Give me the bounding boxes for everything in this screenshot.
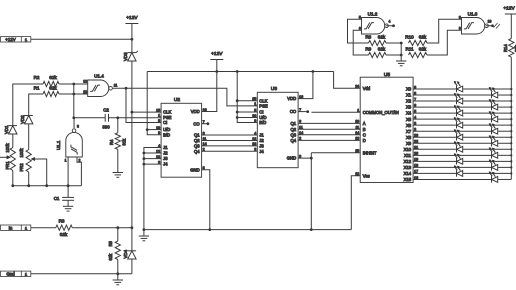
LED HL14 on X13	[489, 160, 498, 171]
svg-text:11: 11	[355, 126, 359, 130]
wire input rail A	[72, 226, 132, 229]
svg-text:1: 1	[357, 109, 359, 113]
svg-text:J1: J1	[259, 133, 264, 138]
wire U2 GND to ground rail	[202, 170, 212, 231]
LED HL6 on X5	[489, 111, 498, 122]
wires U3 Q outputs to U5 A B C D	[298, 123, 360, 140]
svg-text:J4: J4	[163, 162, 168, 167]
svg-text:J3: J3	[259, 144, 264, 149]
svg-text:100k: 100k	[5, 143, 10, 153]
svg-text:Q3: Q3	[194, 144, 200, 149]
diode VD2	[20, 115, 33, 124]
svg-text:+12V: +12V	[126, 15, 138, 21]
LED HL13 on X12	[454, 154, 463, 165]
svg-text:CO: CO	[290, 109, 297, 114]
resistor R8 62k	[365, 35, 386, 46]
svg-text:390: 390	[102, 124, 110, 129]
svg-text:U3: U3	[271, 86, 277, 92]
svg-text:R9: R9	[365, 46, 371, 51]
wire U1.1 input 1 to rail	[67, 157, 69, 186]
resistor R1 62k	[34, 86, 59, 97]
svg-text:24: 24	[355, 85, 359, 89]
svg-text:Q2: Q2	[194, 138, 200, 143]
wire X15 row	[413, 178, 511, 180]
wire X14 row	[413, 172, 511, 174]
svg-text:8: 8	[459, 15, 461, 19]
svg-text:C1: C1	[54, 196, 60, 201]
svg-text:5: 5	[359, 15, 361, 19]
wire X4 row	[413, 112, 511, 114]
svg-text:X5: X5	[406, 117, 412, 122]
svg-text:U1.1: U1.1	[56, 140, 61, 150]
wire U1.1 input 2 jog to rail end	[77, 157, 81, 186]
wire R8 R9 to common node	[386, 42, 403, 61]
svg-text:10: 10	[156, 126, 160, 130]
svg-text:15: 15	[156, 108, 160, 112]
wire rail to U5 Vdd	[334, 72, 361, 89]
wire R1 row	[29, 93, 88, 116]
resistor R2 62k	[34, 75, 59, 86]
wire X6 row	[413, 124, 511, 126]
potentiometer PR1	[5, 134, 16, 186]
svg-text:3: 3	[77, 125, 79, 129]
svg-text:R8: R8	[365, 35, 371, 40]
svg-text:Gnd: Gnd	[6, 272, 15, 277]
LED HL4 on X3	[489, 99, 498, 110]
wire X1 row	[413, 94, 511, 96]
wire +12V rail	[147, 70, 333, 73]
power +12V (top right)	[503, 6, 516, 39]
svg-text:CO: CO	[193, 121, 200, 126]
wire U1.2 in2 to R9	[353, 30, 368, 55]
IC U5 multiplexer	[360, 72, 413, 183]
zener diode VD3	[123, 39, 138, 61]
svg-text:C: C	[363, 132, 366, 137]
wire R11 to U1.3 in2	[427, 30, 462, 55]
svg-text:J2: J2	[163, 151, 168, 156]
svg-text:15: 15	[355, 149, 359, 153]
svg-text:5: 5	[158, 119, 160, 123]
svg-text:CLK: CLK	[163, 110, 171, 115]
svg-text:100k: 100k	[19, 148, 24, 158]
wire rail to U2 VDD	[202, 72, 217, 112]
svg-text:X8: X8	[406, 135, 412, 140]
svg-text:B/D: B/D	[163, 132, 170, 137]
wire R10 to U1.3 in1	[427, 19, 462, 43]
wire U1.1 output to node W	[72, 84, 75, 128]
svg-text:Q4: Q4	[194, 149, 200, 154]
svg-text:X7: X7	[406, 129, 412, 134]
op U1.1 schmitt NAND gate	[56, 125, 82, 163]
svg-text:1: 1	[158, 114, 160, 118]
svg-text:J4: J4	[259, 149, 264, 154]
svg-text:Q4: Q4	[291, 138, 297, 143]
wire X5 row	[413, 118, 511, 120]
diode VD4	[123, 228, 136, 274]
svg-text:1: 1	[25, 272, 28, 277]
svg-text:U5: U5	[384, 72, 390, 78]
svg-text:+12V: +12V	[5, 37, 15, 42]
svg-text:R1: R1	[34, 86, 40, 91]
svg-text:R10: R10	[405, 35, 414, 40]
svg-text:VD4: VD4	[123, 249, 128, 258]
power +12V (top left)	[125, 15, 138, 39]
svg-text:D: D	[363, 138, 366, 143]
svg-text:INHBIT: INHBIT	[363, 150, 377, 155]
svg-text:62k: 62k	[378, 46, 386, 51]
wire X10 row	[413, 148, 511, 150]
svg-text:U2: U2	[174, 97, 180, 103]
resistor R4 91k	[109, 118, 127, 173]
svg-text:B: B	[363, 127, 366, 132]
svg-text:U1.2: U1.2	[368, 12, 378, 17]
svg-text:12: 12	[252, 137, 256, 141]
svg-text:X6: X6	[406, 123, 412, 128]
resistor R9 62k	[365, 46, 386, 57]
svg-text:R3: R3	[59, 219, 65, 224]
svg-text:X4: X4	[406, 111, 412, 116]
wire X9 row	[413, 142, 511, 144]
svg-text:J3: J3	[163, 156, 168, 161]
svg-text:62k: 62k	[108, 253, 113, 261]
svg-text:R11: R11	[405, 46, 414, 51]
LED HL5 on X4	[454, 105, 463, 116]
svg-text:VDD: VDD	[287, 96, 296, 101]
svg-text:13: 13	[252, 142, 256, 146]
svg-text:9: 9	[158, 131, 160, 135]
wire Gnd connector line	[31, 272, 132, 275]
svg-text:14: 14	[355, 131, 359, 135]
svg-text:Vss: Vss	[363, 173, 370, 178]
U3 CO stub	[298, 110, 309, 113]
connector In	[1, 225, 31, 230]
ground (R8 R9 R10 R11)	[396, 61, 406, 66]
svg-text:R14: R14	[503, 44, 508, 52]
svg-text:Vdd: Vdd	[363, 86, 371, 91]
LED HL2 on X1	[489, 87, 498, 98]
wire LED anode bus	[510, 57, 512, 179]
svg-text:VD2: VD2	[20, 115, 25, 124]
IC U2 counter	[161, 97, 202, 177]
svg-text:13: 13	[83, 90, 87, 94]
ground (rail B)	[139, 230, 149, 241]
svg-text:U1.3: U1.3	[468, 12, 478, 17]
svg-text:X2: X2	[406, 99, 412, 104]
LED HL3 on X2	[454, 93, 463, 104]
wire U1.4 output	[112, 87, 257, 106]
svg-text:CI: CI	[163, 120, 167, 125]
svg-text:GND: GND	[190, 167, 199, 172]
svg-text:VD3: VD3	[123, 52, 128, 61]
svg-text:6: 6	[359, 26, 361, 30]
ground (C1)	[63, 206, 73, 211]
svg-text:B/D: B/D	[259, 120, 266, 125]
potentiometer PR2	[19, 124, 31, 186]
op U1.4 schmitt NAND gate	[83, 74, 117, 97]
wire X8 row	[413, 136, 511, 138]
wires U2 Q outputs to U3 J inputs	[202, 135, 258, 151]
wire X2 row	[413, 100, 511, 102]
LED HL15 on X14	[454, 166, 463, 177]
svg-text:5: 5	[254, 108, 256, 112]
svg-text:CI: CI	[259, 110, 263, 115]
svg-text:A: A	[363, 121, 366, 126]
wire X13 row	[413, 166, 511, 168]
LED HL8 on X7	[489, 123, 498, 134]
svg-text:62k: 62k	[60, 232, 68, 237]
U5 left pin names	[355, 85, 399, 179]
op U1.3 schmitt NAND gate	[459, 12, 492, 34]
svg-text:X13: X13	[404, 165, 412, 170]
U1.3 output stub	[486, 23, 500, 29]
U2 CO stub	[202, 122, 210, 125]
svg-text:+12V: +12V	[503, 6, 515, 12]
svg-text:91k: 91k	[122, 138, 127, 146]
U1.2 output stub	[386, 24, 395, 27]
U3 right pin names	[287, 95, 303, 161]
svg-text:4: 4	[254, 131, 256, 135]
wire U1.2 in1 to R8	[348, 19, 369, 43]
capacitor C2 390	[102, 107, 110, 129]
wire U5 Vss to ground rail	[351, 176, 360, 230]
svg-text:X11: X11	[404, 153, 412, 158]
svg-text:PR2: PR2	[19, 163, 24, 172]
IC U3 counter	[257, 86, 298, 168]
svg-text:62k: 62k	[49, 75, 57, 80]
svg-text:J1: J1	[163, 145, 168, 150]
svg-text:R4: R4	[109, 139, 114, 145]
wire VD3 to CLK node and input rail A	[131, 61, 134, 229]
svg-text:62k: 62k	[419, 46, 427, 51]
wire R2 row	[13, 83, 88, 126]
LED HL7 on X6	[454, 117, 463, 128]
svg-text:10: 10	[252, 114, 256, 118]
wire pot ground rail	[11, 184, 81, 187]
capacitor C1	[54, 186, 74, 207]
wire rail to U3 VDD	[298, 72, 313, 99]
svg-text:9: 9	[254, 119, 256, 123]
resistor R14	[503, 39, 516, 58]
svg-text:13: 13	[355, 137, 359, 141]
svg-text:3: 3	[254, 148, 256, 152]
svg-text:R2: R2	[34, 75, 40, 80]
svg-text:J2: J2	[259, 138, 264, 143]
svg-text:1: 1	[25, 37, 28, 42]
svg-text:1: 1	[25, 225, 28, 230]
PR1 wiper arrow	[0, 156, 11, 159]
svg-text:X14: X14	[404, 171, 412, 176]
wire X3 row	[413, 106, 511, 108]
svg-text:X0: X0	[406, 87, 412, 92]
resistor R3 62k	[31, 219, 73, 238]
U2 left pin names	[156, 108, 172, 166]
svg-text:10: 10	[488, 20, 492, 24]
svg-text:COMMON_OUT/IN: COMMON_OUT/IN	[363, 110, 399, 115]
LED HL9 on X8	[454, 129, 463, 140]
resistor R5 62k	[108, 228, 120, 274]
svg-text:GND: GND	[287, 156, 296, 161]
svg-text:C2: C2	[103, 107, 109, 112]
connector Gnd	[1, 271, 31, 276]
wire U1.4 out branch to U2 CI	[126, 88, 161, 122]
svg-text:62k: 62k	[378, 35, 386, 40]
wire +12V connector to node	[31, 38, 134, 41]
wire CLK line (node to U2 CLK)	[132, 111, 161, 113]
svg-text:X15: X15	[404, 177, 412, 182]
svg-text:+12V: +12V	[211, 51, 223, 57]
resistor R11 62k	[405, 46, 427, 57]
LED HL12 on X11	[489, 148, 498, 159]
connector +12V	[1, 37, 31, 42]
op U1.2 schmitt NAND gate	[359, 12, 391, 34]
node W wire (U1.1 out / C2 / U2 pins)	[74, 116, 161, 119]
svg-text:62k: 62k	[419, 35, 427, 40]
wire U5 COMMON line	[312, 111, 361, 113]
svg-text:VD1: VD1	[4, 125, 9, 134]
diode VD1	[4, 125, 17, 134]
svg-text:1: 1	[65, 159, 67, 163]
svg-text:X10: X10	[404, 147, 412, 152]
svg-text:X3: X3	[406, 105, 412, 110]
svg-text:12: 12	[83, 80, 87, 84]
svg-text:9: 9	[459, 26, 461, 30]
svg-text:4: 4	[389, 20, 391, 24]
U2 jam input bus to ground	[143, 148, 162, 232]
PR2 wiper arrow	[31, 157, 47, 185]
wire X0 row	[413, 88, 511, 90]
LED HL10 on X9	[489, 135, 498, 146]
svg-text:In: In	[9, 225, 13, 230]
wire X11 row	[413, 154, 511, 156]
LED HL1 on X0	[454, 81, 463, 92]
wire ground rail B	[144, 229, 351, 231]
svg-text:15: 15	[252, 97, 256, 101]
wire X12 row	[413, 160, 511, 162]
wire X7 row	[413, 130, 511, 132]
ground (R4)	[113, 173, 123, 178]
svg-text:1: 1	[254, 102, 256, 106]
svg-text:62k: 62k	[49, 86, 57, 91]
svg-text:Q2: Q2	[291, 127, 297, 132]
U2 right pin names	[190, 108, 206, 173]
LED HL11 on X10	[454, 142, 463, 153]
wire rail to U3 control pins	[236, 72, 257, 123]
LED HL16 on X15	[489, 172, 498, 183]
svg-text:VDD: VDD	[191, 109, 200, 114]
power +12V (above U2)	[210, 51, 223, 73]
U5 right X pin names	[404, 85, 418, 182]
resistor R10 62k	[405, 35, 427, 46]
svg-text:Q1: Q1	[291, 121, 297, 126]
svg-text:16: 16	[203, 108, 207, 112]
svg-text:U1.4: U1.4	[94, 74, 104, 79]
svg-text:X9: X9	[406, 141, 412, 146]
svg-text:PR1: PR1	[5, 161, 10, 170]
svg-text:16: 16	[299, 95, 303, 99]
svg-text:X12: X12	[404, 159, 412, 164]
svg-text:PSE: PSE	[259, 104, 268, 109]
svg-text:R5: R5	[108, 240, 113, 246]
svg-text:Q1: Q1	[194, 133, 200, 138]
wire rail to U2 PSE	[146, 72, 161, 135]
wire U3 GND to ground rail and U5 INHIBIT	[298, 153, 360, 231]
ground (input)	[113, 274, 123, 285]
U3 left pin names	[252, 97, 268, 154]
svg-text:11: 11	[114, 84, 118, 88]
svg-text:10: 10	[355, 120, 359, 124]
svg-text:X1: X1	[406, 93, 412, 98]
svg-text:Q3: Q3	[291, 132, 297, 137]
